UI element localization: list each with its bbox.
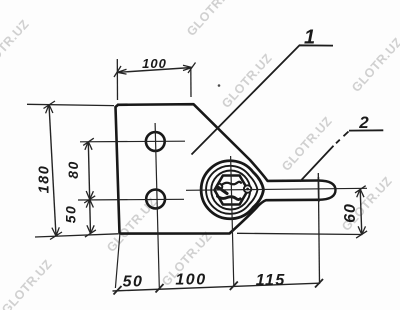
svg-text:180: 180 <box>36 165 52 194</box>
leader 2 underline <box>349 129 383 131</box>
svg-text:100: 100 <box>175 272 206 289</box>
hole upper <box>146 132 165 151</box>
boss outer teardrop <box>201 161 263 219</box>
centerline eye horizontal <box>186 188 367 190</box>
svg-text:2: 2 <box>358 113 369 132</box>
cotter pin scribble <box>217 184 223 190</box>
plate top edge and diagonal <box>118 104 319 181</box>
dimension 80: dim line <box>88 142 90 234</box>
svg-text:100: 100 <box>142 56 167 71</box>
extension line bottom edge right <box>237 233 363 234</box>
watermark <box>349 39 400 94</box>
plate outline left-bottom <box>116 105 319 234</box>
extension line arm tip vertical <box>318 173 319 284</box>
bottom chain tick 1 <box>114 286 122 295</box>
dimension 80: top arrow <box>83 138 94 150</box>
dimension 60 right: bottom arrow <box>356 226 367 238</box>
bottom chain tick 4 <box>315 279 323 288</box>
watermark <box>279 118 331 173</box>
extension line bottom edge left <box>35 234 118 237</box>
watermark <box>339 178 391 233</box>
extension line top dim right <box>190 67 192 97</box>
hole lower <box>146 190 165 209</box>
leader 2 line dashes <box>300 132 349 182</box>
watermark <box>0 261 51 310</box>
arm tip cap <box>319 181 336 200</box>
leader 1 line <box>192 45 334 154</box>
dimension 60 right: top arrow <box>355 186 366 198</box>
extension line plate left edge bottom <box>115 235 119 288</box>
hex nut <box>215 176 249 205</box>
pin circle <box>244 185 251 192</box>
bottom chain tick 2 <box>156 284 164 293</box>
watermark <box>184 0 236 39</box>
centerline eye vertical <box>231 156 234 287</box>
watermark <box>219 55 271 110</box>
dimension 100 top: left arrow <box>114 66 127 77</box>
dimension 180 left: top arrow <box>44 101 56 113</box>
speck dot <box>218 84 221 87</box>
arm tip boundary line <box>317 177 319 202</box>
pin circle dot <box>246 188 249 191</box>
svg-text:50: 50 <box>63 205 79 224</box>
watermark <box>159 233 211 288</box>
dimension 180 left: dim line <box>49 105 56 237</box>
dimension 80: middle arrows <box>84 191 95 208</box>
boss middle circle <box>211 171 250 210</box>
svg-text:60: 60 <box>342 203 359 223</box>
centerline holes vertical <box>155 123 159 288</box>
centerline lower hole horizontal <box>78 198 184 201</box>
dimension 50 left: bottom arrow <box>85 225 96 237</box>
dimension 100 top: right arrow <box>183 63 196 74</box>
extension line top dim left <box>116 59 118 100</box>
bottom chain tick 3 <box>230 282 238 291</box>
dimension 60 right: dim line <box>360 189 362 235</box>
dimension chain bottom: dim line <box>113 283 320 291</box>
dimension 180 left: bottom arrow <box>50 227 62 239</box>
svg-text:80: 80 <box>65 160 81 179</box>
watermark <box>0 21 28 76</box>
svg-text:50: 50 <box>123 274 144 291</box>
svg-text:115: 115 <box>256 272 286 289</box>
extension line 180 top <box>27 104 114 105</box>
watermark <box>104 199 156 254</box>
dimension 100 top: dim line <box>117 68 192 73</box>
centerline upper hole horizontal <box>80 140 185 143</box>
boss inner teardrop <box>206 166 257 214</box>
svg-text:1: 1 <box>304 27 315 49</box>
